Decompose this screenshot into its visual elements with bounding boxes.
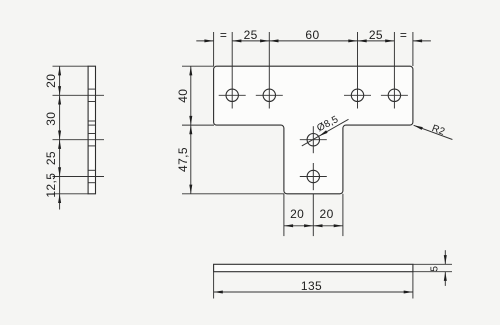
length dimension line [214, 291, 413, 293]
hole H4 [388, 89, 400, 101]
hole H1 [226, 89, 238, 101]
svg-text:=: = [220, 28, 227, 42]
svg-text:40: 40 [176, 89, 190, 103]
svg-text:30: 30 [44, 112, 58, 126]
stem 20/20 extension lines [284, 194, 343, 236]
thickness arrows [444, 255, 447, 281]
svg-text:47,5: 47,5 [176, 147, 190, 172]
stem arrows [284, 224, 343, 227]
side view plate outline [88, 66, 95, 194]
left dimension line [190, 66, 192, 194]
hole H5 [307, 134, 319, 146]
top dimension extension lines [214, 32, 413, 109]
svg-text:20: 20 [290, 207, 304, 221]
svg-text:20: 20 [320, 207, 334, 221]
side view hole hidden edge lines [88, 89, 95, 183]
svg-text:=: = [400, 28, 407, 42]
far-left arrows [58, 66, 61, 203]
radius leader arrow [414, 125, 423, 130]
svg-text:12,5: 12,5 [44, 173, 58, 198]
bottom view right extension lines [413, 264, 452, 271]
svg-text:60: 60 [305, 28, 319, 42]
length arrows [214, 291, 413, 294]
svg-text:20: 20 [44, 74, 58, 88]
diameter leader arrow [319, 130, 328, 136]
svg-text:135: 135 [301, 279, 322, 293]
left arrows [189, 66, 192, 194]
top dimension lines [196, 40, 431, 42]
length dimension extension lines [214, 272, 413, 299]
radius leader line [414, 125, 453, 139]
far-left dimension line [59, 66, 61, 209]
top dimension arrows [204, 39, 422, 42]
left dimension extension lines [182, 66, 284, 194]
thickness dimension line [444, 250, 446, 286]
svg-text:25: 25 [369, 28, 383, 42]
main T-plate outline [214, 66, 413, 194]
svg-text:5: 5 [429, 266, 440, 272]
hole H2 [263, 89, 275, 101]
svg-text:25: 25 [44, 151, 58, 165]
stem dimension line [284, 225, 343, 227]
hole H6 [307, 170, 319, 182]
svg-text:25: 25 [244, 28, 258, 42]
bottom view plate outline [214, 264, 413, 271]
diameter leader line [302, 119, 349, 146]
hole H3 [351, 89, 363, 101]
side view centerlines crossing [53, 95, 105, 176]
far-left dimension extension lines [53, 66, 89, 194]
